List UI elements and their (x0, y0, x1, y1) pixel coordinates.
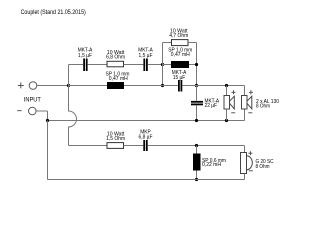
inductor L1 SP 1,0mm 0,47mH (163, 48, 197, 69)
svg-text:Couplet (Stand 21.05.2015): Couplet (Stand 21.05.2015) (21, 9, 86, 16)
svg-text:8 Ohm: 8 Ohm (256, 164, 270, 170)
woofer W2 (242, 90, 253, 113)
capacitor C5 MKP 6,8uF (139, 130, 154, 152)
svg-text:1,5 µF: 1,5 µF (139, 53, 154, 59)
node dot return left (46, 119, 49, 122)
svg-text:0,22 mH: 0,22 mH (202, 162, 221, 168)
return rail (48, 120, 245, 122)
wire plus terminal to junction (37, 85, 69, 87)
wire minus terminal right (36, 110, 48, 112)
capacitor C2 MKT-A 1,5uF (138, 48, 153, 72)
wire notch left vertical (162, 43, 164, 86)
wire corner down to woofer2 (244, 86, 246, 96)
tweeter bottom wire (48, 179, 245, 181)
wire top branch start (69, 64, 84, 66)
woofer W1 (224, 86, 236, 121)
input minus terminal (17, 107, 36, 115)
resistor R1 10 Watt 6,8 Ohm (106, 50, 125, 67)
tweeter return vertical from input minus (47, 121, 49, 180)
input plus terminal (18, 82, 37, 90)
wire return corner up to woofer2 bottom (244, 109, 246, 121)
node dot input junction (67, 84, 70, 87)
rail wire C3 to node B (182, 85, 196, 87)
wire to tweeter (148, 145, 245, 147)
svg-text:8 Ohm: 8 Ohm (256, 104, 270, 110)
inductor L3 SP 0,6mm 0,22mH shunt (193, 146, 226, 180)
svg-text:6,8 Ohm: 6,8 Ohm (106, 55, 125, 61)
wire (124, 64, 144, 66)
bottom branch wire from hop corner (69, 145, 108, 147)
wire corner down to tweeter (244, 146, 246, 153)
wire (148, 64, 163, 66)
wire main feed vertical top (68, 65, 70, 86)
node B right of notch (195, 63, 198, 66)
svg-text:INPUT: INPUT (24, 98, 41, 104)
wire minus down to return rail (47, 111, 49, 121)
node dot B on rail (195, 84, 198, 87)
node A left of notch (161, 63, 164, 66)
svg-text:1,5 µF: 1,5 µF (78, 53, 93, 59)
rail wire node B to woofers (197, 85, 245, 87)
wire (124, 145, 144, 147)
node dot L3 bottom (195, 178, 198, 181)
tweeter G20SC (241, 151, 253, 173)
wire main feed vertical with hop over return rail (69, 86, 77, 146)
inductor L2 SP 1,0mm 0,47mH on rail (106, 71, 130, 89)
svg-text:4,7 Ohm: 4,7 Ohm (169, 33, 188, 39)
resistor R3 10 Watt 1,5 Ohm (106, 132, 125, 149)
wire (88, 64, 107, 66)
svg-text:15 µF: 15 µF (173, 75, 186, 81)
wire notch right vertical (196, 43, 198, 86)
rail wire node A to C3 (163, 85, 179, 87)
resistor R2 10 Watt 4,7 Ohm (163, 29, 197, 46)
capacitor C3 MKT-A 15uF series on rail (172, 70, 187, 92)
node dot woofer1 bottom (225, 119, 228, 122)
svg-text:0,47 mH: 0,47 mH (109, 76, 128, 82)
node dot A on rail (161, 84, 164, 87)
svg-text:6,8 µF: 6,8 µF (139, 134, 154, 140)
wire corner up to tweeter bottom (244, 174, 246, 180)
svg-text:1,5 Ohm: 1,5 Ohm (106, 136, 125, 142)
svg-text:22 µF: 22 µF (205, 103, 218, 109)
node dot woofer1 top (225, 84, 228, 87)
capacitor C1 MKT-A 1,5uF (78, 48, 93, 72)
capacitor C4 MKT-A 22uF shunt (191, 86, 219, 121)
node dot C4 bottom (195, 119, 198, 122)
node dot L3 top (195, 144, 198, 147)
svg-text:0,47 mH: 0,47 mH (171, 52, 190, 58)
rail wire input junction to L2 (69, 85, 108, 87)
rail wire L2 to node A (124, 85, 163, 87)
